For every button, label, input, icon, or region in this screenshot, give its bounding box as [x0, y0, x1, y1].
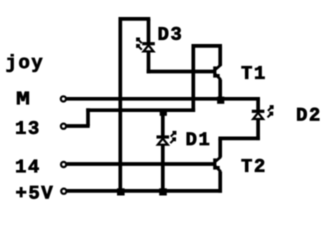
wire T1 collector vertical — [218, 46, 222, 66]
label 14 — [16, 160, 38, 173]
D1 arrow lower — [170, 138, 175, 143]
label M — [17, 92, 29, 105]
D3 arrow upper — [137, 39, 142, 44]
wire T2 collector vertical — [218, 138, 222, 157]
wire 13 upper horizontal — [86, 108, 195, 112]
wire D3 to T1 base — [147, 70, 215, 74]
wire T2 emitter vertical — [218, 172, 222, 193]
wire D3 cathode vertical — [147, 52, 151, 74]
terminal +5V — [61, 189, 66, 194]
diode D3 — [142, 44, 155, 52]
wire D3 anode vertical — [147, 19, 151, 43]
wire M horizontal — [67, 97, 260, 101]
wire D1 anode vertical — [161, 110, 165, 136]
label D3 — [159, 27, 181, 40]
wire 13 lower horizontal — [67, 124, 90, 128]
label 13 — [16, 121, 38, 134]
transistor T2 — [215, 157, 221, 172]
label joy — [7, 54, 43, 72]
wire left tall vertical — [118, 17, 122, 191]
transistor T1 — [215, 65, 221, 80]
label +5V — [16, 186, 52, 199]
wire T1 loop left vertical — [191, 44, 195, 112]
wire +5V horizontal — [67, 189, 222, 193]
D2 arrow lower — [268, 113, 273, 118]
wire top horizontal — [119, 17, 151, 21]
diode D2 — [252, 111, 265, 119]
junction D1 top — [160, 109, 167, 116]
wire T1 emitter vertical — [218, 80, 222, 101]
terminal 13 — [61, 124, 66, 129]
junction T1 emitter / M — [217, 97, 224, 104]
D2 arrow upper — [268, 106, 273, 111]
D3 arrow lower — [137, 45, 142, 50]
wire 14 horizontal — [67, 162, 216, 166]
wire D2 cathode vertical — [256, 119, 260, 140]
wire D1 cathode vertical — [161, 145, 165, 191]
wire D2 to T2 horizontal — [218, 137, 260, 141]
wire 13 step vertical — [86, 108, 90, 126]
label T1 — [242, 66, 265, 79]
junction D1 / +5V — [159, 188, 167, 195]
wire T1 loop top horizontal — [192, 44, 223, 48]
D1 arrow upper — [171, 132, 176, 137]
wire D2 anode vertical — [256, 97, 260, 110]
label D1 — [187, 133, 209, 146]
diode D1 — [157, 137, 170, 145]
junction left vertical / +5V — [117, 188, 125, 195]
terminal 14 — [61, 162, 66, 167]
label T2 — [242, 159, 265, 172]
terminal M — [61, 96, 66, 101]
label D2 — [297, 108, 319, 121]
